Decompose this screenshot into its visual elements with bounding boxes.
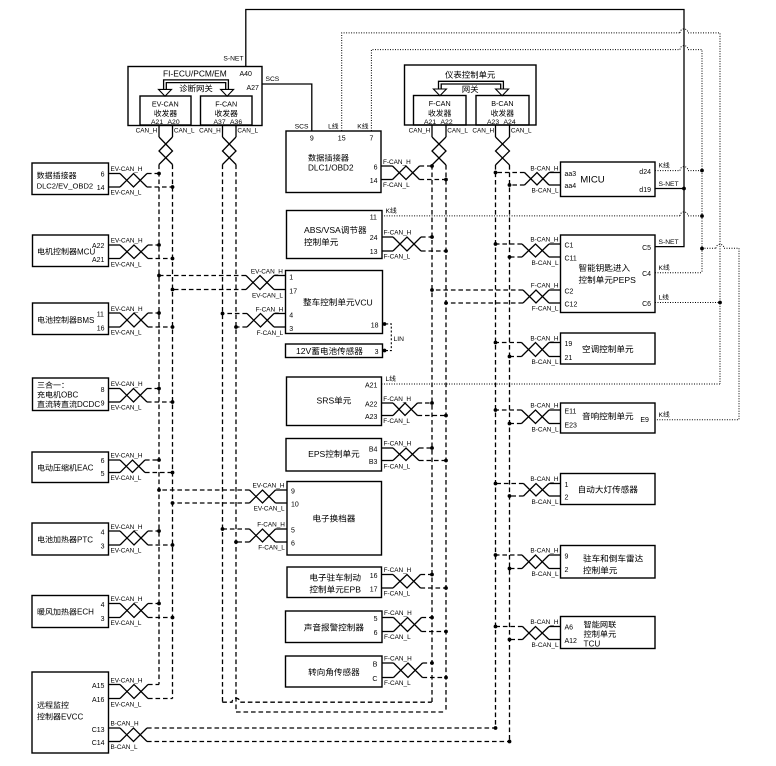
twisted pair EPS to F-CAN bus: [382, 441, 448, 471]
svg-text:8: 8: [101, 387, 105, 394]
smart key entry PEPS box: [561, 235, 656, 313]
svg-text:B-CAN_H: B-CAN_H: [530, 335, 558, 342]
svg-text:F-CAN_L: F-CAN_L: [258, 544, 285, 551]
F-CAN transceiver sub-box: [201, 96, 253, 126]
twisted pair audio to B-CAN bus: [494, 403, 561, 434]
remote monitoring EVCC box: [32, 672, 109, 753]
L-line from PEPS C6: [655, 294, 722, 305]
svg-text:6: 6: [291, 540, 295, 547]
twisted pair shifter pins 5/6 to F-CAN bus: [221, 522, 287, 552]
svg-text:A21: A21: [151, 119, 163, 126]
twisted pair shifter pins 9/10 to EV-CAN bus: [157, 483, 287, 513]
svg-text:F-CAN_L: F-CAN_L: [384, 634, 411, 641]
F-CAN bus twisted pair vertical (middle-left): [223, 125, 237, 712]
svg-text:13: 13: [370, 249, 378, 256]
svg-text:17: 17: [289, 288, 297, 295]
diagnostic gateway arrow bracket with label 诊断网关: [159, 80, 234, 96]
motor control unit MCU box: [33, 235, 109, 267]
svg-text:17: 17: [370, 587, 378, 594]
svg-text:CAN_L: CAN_L: [237, 128, 258, 135]
twisted pair EPB to F-CAN bus: [382, 567, 448, 598]
svg-text:DLC1/OBD2: DLC1/OBD2: [308, 164, 354, 173]
svg-text:F-CAN_H: F-CAN_H: [384, 610, 412, 617]
svg-text:B-CAN_H: B-CAN_H: [111, 721, 139, 728]
B-CAN bus bottom corner dots: [494, 726, 512, 743]
svg-text:B-CAN_H: B-CAN_H: [530, 619, 558, 626]
twisted pair PEPS C1/C11 to B-CAN bus: [494, 237, 561, 267]
svg-text:MICU: MICU: [580, 174, 605, 185]
audible warning controller box: [286, 611, 383, 643]
svg-text:B-CAN: B-CAN: [491, 99, 513, 108]
svg-text:EV-CAN_H: EV-CAN_H: [111, 677, 143, 684]
twisted pair EVCC C13/C14 B-CAN to right bus: [109, 721, 510, 751]
svg-text:EV-CAN_L: EV-CAN_L: [111, 620, 142, 627]
LIN wire VCU pin18 to 12V battery sensor pin3: [382, 322, 404, 352]
svg-text:A21: A21: [365, 382, 378, 389]
svg-text:EV-CAN_L: EV-CAN_L: [111, 405, 142, 412]
svg-text:11: 11: [370, 215, 377, 222]
svg-text:C4: C4: [642, 271, 651, 278]
svg-text:11: 11: [97, 311, 104, 318]
svg-text:12V: 12V: [296, 346, 312, 356]
svg-text:PEPS: PEPS: [613, 275, 636, 285]
svg-text:9: 9: [291, 489, 295, 496]
twisted pair PTC to EV-CAN bus: [109, 524, 175, 555]
svg-text:CAN_L: CAN_L: [174, 128, 195, 135]
svg-text:3: 3: [289, 326, 293, 333]
F-CAN bus bottom link L: [236, 711, 446, 713]
svg-text:L: L: [328, 124, 332, 131]
twisted pair radar to B-CAN bus: [494, 548, 561, 579]
svg-text:9: 9: [101, 401, 105, 408]
twisted pair DLC2 to EV-CAN bus: [109, 166, 175, 197]
svg-text:B-CAN_L: B-CAN_L: [532, 642, 559, 649]
electric compressor EAC box: [32, 452, 109, 483]
svg-text:EV-CAN_L: EV-CAN_L: [111, 701, 142, 708]
svg-text:EV-CAN_H: EV-CAN_H: [111, 381, 143, 388]
svg-text:L: L: [659, 295, 663, 302]
svg-text:EVCC: EVCC: [61, 713, 83, 722]
steering angle sensor box: [286, 656, 383, 687]
svg-text:d24: d24: [639, 169, 651, 176]
svg-text:6: 6: [101, 172, 105, 179]
L-line dotted: DLC1 pin15 up, across top, down right side: [328, 29, 720, 384]
twisted pair SRS to F-CAN bus: [382, 396, 448, 425]
svg-text:B-CAN_H: B-CAN_H: [530, 476, 558, 483]
svg-text:CAN_H: CAN_H: [472, 128, 494, 135]
12V battery sensor box: [286, 344, 383, 358]
svg-text:1: 1: [289, 274, 293, 281]
svg-text:EV-CAN_H: EV-CAN_H: [111, 524, 143, 531]
svg-text:EV-CAN_L: EV-CAN_L: [252, 292, 283, 299]
svg-text:B-CAN_L: B-CAN_L: [532, 359, 559, 366]
S-NET wire from A40 to MICU/PEPS: [223, 10, 685, 247]
electronic shifter box: [287, 482, 382, 556]
twisted pair EAC to EV-CAN bus: [109, 453, 175, 482]
twisted pair VCU pins 1/17 to EV-CAN bus: [157, 268, 285, 299]
svg-text:A24: A24: [504, 119, 516, 126]
instrument cluster box 仪表控制单元 U2: [405, 65, 537, 125]
svg-text:B-CAN_H: B-CAN_H: [530, 237, 558, 244]
svg-text:ECH: ECH: [77, 608, 94, 617]
svg-text:EPB: EPB: [344, 585, 361, 595]
svg-text:5: 5: [291, 527, 295, 534]
svg-text:B-CAN_L: B-CAN_L: [532, 260, 559, 267]
svg-text:16: 16: [97, 325, 105, 332]
svg-text:EV-CAN_L: EV-CAN_L: [111, 475, 142, 482]
svg-text:F-CAN_H: F-CAN_H: [384, 656, 412, 663]
svg-text:B4: B4: [369, 446, 378, 453]
svg-text:F-CAN_L: F-CAN_L: [383, 418, 410, 425]
data connector DLC2/EV_OBD2 box: [32, 163, 109, 195]
svg-text:C11: C11: [565, 256, 577, 263]
svg-text:C1: C1: [565, 242, 574, 249]
svg-text:CAN_L: CAN_L: [447, 128, 468, 135]
svg-text:BMS: BMS: [77, 316, 94, 325]
telematics TCU box: [561, 617, 656, 649]
K-line from ABS pin 11: [382, 207, 704, 218]
CAN_H / CAN_L labels under FI-ECU: [136, 128, 259, 135]
svg-text:1: 1: [565, 482, 569, 489]
svg-text:C5: C5: [642, 245, 651, 252]
svg-text:DLC2/EV_OBD2: DLC2/EV_OBD2: [37, 182, 94, 191]
svg-text:21: 21: [565, 355, 573, 362]
svg-text:C14: C14: [92, 740, 105, 747]
svg-text:F-CAN_H: F-CAN_H: [384, 567, 412, 574]
svg-text:SCS: SCS: [295, 124, 309, 131]
svg-text:EV-CAN_L: EV-CAN_L: [111, 261, 142, 268]
svg-text:C6: C6: [642, 301, 651, 308]
svg-text:EV-CAN_H: EV-CAN_H: [253, 483, 285, 490]
twisted pair PEPS C2/C12 to F-CAN bus: [430, 283, 560, 313]
twisted pair audible warning to F-CAN bus: [382, 610, 448, 641]
svg-text:19: 19: [565, 341, 573, 348]
svg-text:C12: C12: [565, 302, 578, 309]
svg-text:A21: A21: [92, 257, 105, 264]
SCS wire A27 to DLC1 pin 9: [262, 76, 312, 131]
ECM/gateway box FI-ECU/PCM/EM U1: [128, 67, 262, 126]
svg-text:K: K: [659, 265, 664, 272]
twisted pair EVCC A15/A16 to EV-CAN bus (bus end): [109, 677, 173, 708]
svg-text:6: 6: [374, 164, 378, 171]
twisted pair DLC1 to F-CAN bus: [381, 159, 448, 189]
svg-text:K: K: [659, 163, 664, 170]
svg-text:B-CAN_H: B-CAN_H: [530, 548, 558, 555]
svg-text:4: 4: [289, 312, 293, 319]
svg-text:EV-CAN: EV-CAN: [152, 99, 179, 108]
svg-text:d19: d19: [639, 187, 651, 194]
svg-text:B-CAN_H: B-CAN_H: [530, 165, 558, 172]
svg-text:6: 6: [374, 630, 378, 637]
EV-CAN transceiver sub-box: [140, 96, 191, 126]
svg-text:L: L: [386, 376, 390, 383]
svg-text:K: K: [357, 124, 362, 131]
svg-text:F-CAN_H: F-CAN_H: [384, 441, 412, 448]
svg-text:3: 3: [101, 544, 105, 551]
cluster gateway arrow bracket with label 网关: [433, 81, 508, 95]
svg-text:SCS: SCS: [266, 76, 280, 83]
svg-text:B-CAN_L: B-CAN_L: [111, 744, 138, 751]
svg-text:2: 2: [565, 567, 569, 574]
svg-text:B-CAN_L: B-CAN_L: [532, 571, 559, 578]
svg-text:F-CAN_H: F-CAN_H: [257, 522, 285, 529]
S-NET label at PEPS C5: [659, 239, 679, 246]
svg-text:F-CAN_L: F-CAN_L: [384, 591, 411, 598]
svg-text:S-NET: S-NET: [223, 56, 243, 63]
twisted pair MCU to EV-CAN bus: [109, 238, 175, 269]
svg-text:TCU: TCU: [584, 640, 601, 649]
svg-text:DCDC: DCDC: [77, 400, 100, 409]
svg-text:14: 14: [97, 185, 105, 192]
svg-text:F-CAN_H: F-CAN_H: [384, 230, 412, 237]
twisted pair MICU to B-CAN bus: [494, 165, 561, 194]
twisted pair A/C to B-CAN bus: [494, 335, 561, 366]
svg-text:4: 4: [101, 602, 105, 609]
svg-text:S-NET: S-NET: [659, 181, 679, 188]
cluster B-CAN transceiver sub-box: [476, 96, 529, 126]
svg-text:F-CAN: F-CAN: [429, 99, 451, 108]
svg-text:9: 9: [565, 553, 569, 560]
svg-text:B3: B3: [369, 459, 378, 466]
svg-text:F-CAN_L: F-CAN_L: [257, 330, 284, 337]
svg-text:B-CAN_L: B-CAN_L: [532, 426, 559, 433]
svg-text:CAN_H: CAN_H: [199, 128, 221, 135]
svg-text:VCU: VCU: [355, 297, 373, 307]
svg-text:B-CAN_H: B-CAN_H: [530, 403, 558, 410]
A/C control unit box: [561, 333, 656, 364]
svg-text:C13: C13: [92, 727, 105, 734]
svg-text:F-CAN_L: F-CAN_L: [384, 680, 411, 687]
svg-text:B: B: [373, 662, 378, 669]
svg-text:4: 4: [101, 530, 105, 537]
svg-text:A6: A6: [565, 625, 574, 632]
svg-text:A16: A16: [92, 697, 105, 704]
K-line dotted: DLC1 pin7 up, across top, down right side: [357, 46, 702, 273]
battery heater PTC box: [32, 523, 109, 555]
svg-text:CAN_L: CAN_L: [511, 128, 532, 135]
SRS unit box: [287, 377, 382, 426]
svg-text:A37: A37: [214, 119, 226, 126]
svg-text:A36: A36: [230, 119, 242, 126]
svg-text:C: C: [372, 676, 377, 683]
svg-text:C2: C2: [565, 289, 574, 296]
K-line label at audio E9: [659, 411, 670, 419]
svg-text:EAC: EAC: [77, 464, 94, 473]
svg-text:EV-CAN_H: EV-CAN_H: [111, 596, 143, 603]
svg-text:EV-CAN_L: EV-CAN_L: [254, 506, 285, 513]
L-line from SRS pin A21: [382, 375, 721, 384]
svg-text:EV-CAN_L: EV-CAN_L: [111, 548, 142, 555]
EV-CAN bus twisted pair vertical (left): [159, 125, 173, 699]
svg-text:A21: A21: [424, 119, 436, 126]
svg-text:B-CAN_L: B-CAN_L: [532, 187, 559, 194]
B-CAN bus twisted pair vertical (right): [496, 125, 510, 742]
svg-text:FI-ECU/PCM/EM: FI-ECU/PCM/EM: [163, 68, 227, 78]
svg-text:F-CAN: F-CAN: [215, 99, 237, 108]
svg-text:A27: A27: [247, 85, 260, 92]
svg-text:3: 3: [101, 616, 105, 623]
F-CAN bus bottom link H with crossover hump: [222, 698, 431, 702]
svg-text:F-CAN_L: F-CAN_L: [384, 254, 411, 261]
cluster F-CAN transceiver sub-box: [414, 96, 467, 126]
OBC/DCDC combo box: [33, 378, 109, 411]
svg-text:OBC: OBC: [61, 391, 79, 400]
twisted pair TCU to B-CAN bus: [494, 619, 561, 649]
svg-text:EV-CAN_L: EV-CAN_L: [111, 190, 142, 197]
cabin heater ECH box: [32, 596, 109, 628]
svg-text:CAN_H: CAN_H: [409, 128, 431, 135]
svg-text:F-CAN_H: F-CAN_H: [531, 283, 559, 290]
svg-text:F-CAN_L: F-CAN_L: [383, 182, 410, 189]
svg-text:EV-CAN_H: EV-CAN_H: [111, 166, 143, 173]
svg-text:10: 10: [291, 502, 299, 509]
svg-text:E23: E23: [565, 422, 578, 429]
svg-text:14: 14: [370, 178, 378, 185]
svg-text:F-CAN_L: F-CAN_L: [384, 463, 411, 470]
K-line from MICU d24: [655, 162, 704, 172]
svg-text:CAN_H: CAN_H: [136, 128, 158, 135]
twisted pair VCU pins 4/3 to F-CAN bus: [221, 306, 286, 336]
electric parking brake EPB box: [287, 567, 382, 598]
svg-text:K: K: [659, 412, 664, 419]
svg-text:aa3: aa3: [565, 171, 577, 178]
svg-text:6: 6: [101, 458, 105, 465]
svg-text:EV-CAN_H: EV-CAN_H: [111, 306, 143, 313]
svg-text:18: 18: [371, 323, 379, 330]
svg-text:A22: A22: [365, 402, 378, 409]
twisted pair ABS to F-CAN bus: [382, 230, 448, 261]
svg-text:E9: E9: [640, 417, 649, 424]
svg-text:EV-CAN_L: EV-CAN_L: [111, 330, 142, 337]
svg-text:K: K: [386, 208, 391, 215]
svg-text:A23: A23: [487, 119, 499, 126]
svg-text:A40: A40: [240, 71, 253, 78]
svg-text:A20: A20: [168, 119, 180, 126]
svg-text:A22: A22: [441, 119, 453, 126]
audio control unit box: [561, 403, 656, 433]
svg-text:SRS: SRS: [317, 396, 335, 406]
S-NET label at MICU d19: [659, 181, 679, 188]
svg-text:15: 15: [338, 135, 346, 142]
svg-text:B-CAN_L: B-CAN_L: [532, 499, 559, 506]
twisted pair steering angle sensor to F-CAN bus: [382, 656, 448, 687]
twisted pair OBC to EV-CAN bus: [109, 381, 175, 411]
svg-text:A15: A15: [92, 683, 105, 690]
battery management BMS box: [33, 303, 109, 335]
twisted pair ECH to EV-CAN bus: [109, 596, 175, 627]
svg-text:aa4: aa4: [565, 183, 577, 190]
svg-text:EV-CAN_H: EV-CAN_H: [251, 268, 283, 275]
F-CAN bus twisted pair vertical (middle-right): [432, 125, 446, 712]
svg-text:F-CAN_H: F-CAN_H: [256, 306, 284, 313]
ABS/VSA modulator control unit box: [287, 211, 383, 259]
svg-text:EPS: EPS: [308, 449, 325, 459]
svg-text:5: 5: [101, 471, 105, 478]
connector DLC1/OBD2 box: [286, 131, 381, 193]
svg-text:EV-CAN_H: EV-CAN_H: [111, 238, 143, 245]
K-line from PEPS C4: [655, 264, 702, 273]
svg-text:7: 7: [370, 135, 374, 142]
svg-text:A23: A23: [365, 414, 378, 421]
vehicle control unit VCU box: [286, 271, 383, 334]
MICU box: [561, 162, 656, 197]
svg-text:EV-CAN_H: EV-CAN_H: [111, 453, 143, 460]
svg-text:F-CAN_H: F-CAN_H: [383, 396, 411, 403]
K-line branch to audio unit E9: [655, 244, 739, 419]
svg-text:16: 16: [370, 573, 378, 580]
svg-text:A12: A12: [565, 638, 578, 645]
svg-text:ABS/VSA: ABS/VSA: [304, 225, 341, 235]
svg-text:3: 3: [375, 349, 379, 356]
parking/reversing radar control unit box: [561, 546, 656, 579]
EPS control unit box: [286, 439, 382, 472]
svg-text:A22: A22: [92, 243, 105, 250]
svg-text:S-NET: S-NET: [659, 239, 679, 246]
svg-text:F-CAN_H: F-CAN_H: [383, 159, 411, 166]
svg-text:9: 9: [310, 135, 314, 142]
twisted pair BMS to EV-CAN bus: [109, 306, 175, 337]
CAN_H / CAN_L labels under cluster: [409, 128, 532, 135]
twisted pair headlight sensor to B-CAN bus: [494, 476, 561, 506]
svg-text:F-CAN_L: F-CAN_L: [532, 306, 559, 313]
svg-text:PTC: PTC: [77, 535, 93, 544]
auto headlight sensor box: [561, 474, 656, 505]
svg-text:E11: E11: [565, 409, 577, 416]
svg-text:24: 24: [370, 235, 378, 242]
svg-text:LIN: LIN: [394, 336, 405, 343]
svg-text:5: 5: [374, 616, 378, 623]
svg-text:2: 2: [565, 495, 569, 502]
